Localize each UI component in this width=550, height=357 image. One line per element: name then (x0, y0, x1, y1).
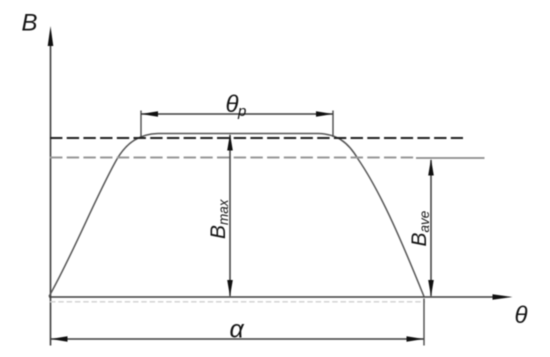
y-axis (50, 42, 52, 346)
Bave arrowhead top (428, 159, 434, 176)
Bave dimension line (430, 160, 432, 296)
theta_p extension line right (332, 111, 334, 138)
theta_p dimension line (141, 113, 333, 115)
alpha dimension line (50, 338, 424, 340)
y-axis arrowhead (48, 26, 54, 46)
Bmax arrowhead top (227, 134, 233, 151)
svg-text:θ: θ (515, 302, 528, 329)
theta_p extension line left (140, 111, 142, 138)
alpha arrowhead right (407, 336, 424, 342)
theta_p arrowhead left (141, 111, 158, 117)
theta_p arrowhead right (316, 111, 333, 117)
x-axis (49, 296, 496, 298)
Bmax dimension line (229, 135, 231, 296)
alpha extension line right (423, 299, 425, 346)
alpha arrowhead left (51, 336, 68, 342)
x-axis arrowhead (493, 294, 513, 300)
hidden dashed line under x-axis (50, 301, 425, 303)
Bmax arrowhead bottom (227, 280, 233, 297)
Bmax level dashed line (50, 137, 463, 139)
Bave arrowhead bottom (428, 280, 434, 297)
flux density curve (49, 134, 424, 297)
Bave level solid segment (416, 157, 485, 159)
Bave level dashed line (50, 157, 414, 159)
svg-text:α: α (230, 316, 245, 344)
svg-text:B: B (22, 10, 38, 37)
